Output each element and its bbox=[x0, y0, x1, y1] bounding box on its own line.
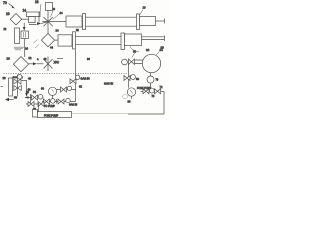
right valve cluster a bbox=[124, 75, 139, 81]
label 36 leader curve bbox=[130, 47, 150, 53]
modulator block assembly bbox=[27, 4, 42, 23]
trap circle bbox=[147, 76, 154, 83]
faint mid circle bbox=[123, 94, 128, 99]
upper hub beamsplitter bbox=[43, 11, 67, 34]
wire etalon down to mirror M3 bbox=[24, 39, 26, 58]
svg-text:70: 70 bbox=[156, 79, 159, 82]
left out arrow bbox=[5, 96, 17, 102]
beam arrow to hub bbox=[29, 22, 48, 25]
svg-text:FORE PUMP: FORE PUMP bbox=[137, 87, 152, 90]
pump down stub bbox=[150, 73, 152, 76]
svg-text:42: 42 bbox=[44, 57, 47, 61]
wire down-arrow into etalon bbox=[23, 23, 26, 31]
manifold row C bbox=[42, 98, 76, 104]
mirror M1 diamond bbox=[10, 14, 22, 25]
wire M2 to tube2 bbox=[55, 39, 58, 41]
svg-text:50: 50 bbox=[14, 96, 17, 100]
label 24 striped bbox=[14, 47, 24, 50]
svg-text:66: 66 bbox=[133, 50, 137, 54]
svg-text:36: 36 bbox=[146, 48, 150, 52]
wire M1 to modulator bbox=[22, 18, 29, 20]
svg-text:68: 68 bbox=[136, 77, 139, 81]
label 10 leader bbox=[140, 6, 147, 16]
laser tube 2 bbox=[58, 32, 165, 50]
svg-text:a: a bbox=[37, 58, 39, 61]
etalon small box bbox=[21, 31, 29, 39]
lower hub X beamsplitter bbox=[44, 57, 61, 72]
branch bowtie bbox=[70, 79, 76, 84]
right manifold bbox=[141, 85, 165, 94]
svg-text:14: 14 bbox=[23, 9, 27, 13]
gas line left vertical bbox=[17, 75, 19, 97]
leader marks right of etalon bbox=[34, 40, 38, 44]
mirror M2 diamond bbox=[41, 34, 54, 47]
svg-text:GAS IN: GAS IN bbox=[81, 77, 90, 81]
detector tall box bbox=[15, 28, 20, 44]
svg-text:22: 22 bbox=[4, 28, 7, 31]
fore pump assembly bbox=[33, 103, 129, 118]
svg-text:60: 60 bbox=[41, 87, 44, 91]
svg-text:16: 16 bbox=[6, 12, 10, 16]
down arrow bbox=[25, 93, 28, 97]
vertical main right line bbox=[128, 64, 130, 88]
svg-text:FORE PUMP: FORE PUMP bbox=[44, 114, 59, 117]
manifold row A bbox=[25, 94, 44, 104]
svg-text:32: 32 bbox=[29, 56, 32, 60]
detector box B1 bbox=[46, 3, 53, 11]
valve V2 bowtie bbox=[14, 86, 21, 91]
beam M3 right with arrow bbox=[29, 62, 44, 65]
mirror M3 diamond bbox=[13, 57, 28, 72]
svg-text:TO PUMP: TO PUMP bbox=[44, 105, 55, 108]
wire branch right bbox=[21, 81, 26, 94]
dashed enclosure line bbox=[4, 73, 129, 75]
label 70 leader arrow top-left bbox=[3, 1, 15, 9]
cross line y89.5 bbox=[57, 86, 76, 92]
svg-text:70: 70 bbox=[3, 1, 7, 5]
svg-text:VAC: VAC bbox=[54, 60, 59, 64]
svg-text:30: 30 bbox=[128, 100, 131, 104]
svg-text:64: 64 bbox=[160, 48, 164, 52]
svg-text:44: 44 bbox=[60, 11, 63, 15]
svg-text:30: 30 bbox=[87, 58, 90, 61]
valve V1 bowtie bbox=[14, 79, 21, 84]
svg-text:26: 26 bbox=[7, 57, 11, 61]
svg-text:44: 44 bbox=[50, 46, 53, 50]
svg-text:24: 24 bbox=[25, 47, 28, 51]
gauge on stem bbox=[48, 87, 56, 99]
svg-text:54: 54 bbox=[33, 90, 36, 94]
right edge pipe bbox=[128, 91, 164, 114]
cold trap tall rect bbox=[9, 78, 13, 96]
svg-text:72: 72 bbox=[160, 85, 163, 89]
upper right cluster bbox=[122, 50, 143, 65]
manifold row B bbox=[26, 102, 44, 107]
svg-text:10: 10 bbox=[143, 6, 147, 10]
svg-text:GAS IN: GAS IN bbox=[104, 82, 113, 86]
svg-text:28: 28 bbox=[3, 76, 7, 80]
svg-text:78: 78 bbox=[152, 95, 155, 98]
svg-text:32: 32 bbox=[76, 29, 79, 32]
svg-text:34: 34 bbox=[56, 29, 60, 33]
gas branch line vertical bbox=[75, 50, 77, 102]
branch valve circle bbox=[75, 75, 79, 79]
ballast circle big bbox=[142, 48, 163, 73]
middle tiny marks bbox=[85, 78, 88, 80]
svg-text:GAS IN: GAS IN bbox=[69, 104, 77, 107]
valve V1 circle bbox=[17, 75, 22, 80]
svg-text:46: 46 bbox=[28, 77, 31, 81]
laser tube 1 bbox=[66, 14, 165, 30]
bottom right gauge bbox=[127, 88, 135, 104]
svg-text:62: 62 bbox=[79, 85, 82, 89]
svg-text:18: 18 bbox=[35, 0, 39, 4]
